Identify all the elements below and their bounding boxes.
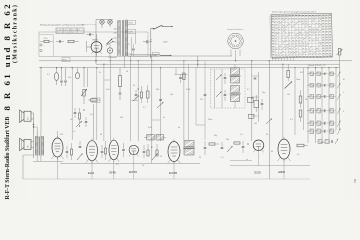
- svg-text:5k: 5k: [266, 134, 268, 136]
- svg-text:L: L: [343, 92, 344, 94]
- label winding 6.3V b: [128, 29, 136, 33]
- fuse Si1: [100, 20, 104, 24]
- svg-text:Si Si Si Si: Si Si Si Si: [57, 32, 75, 34]
- electrolytic can C e1: [54, 73, 58, 81]
- svg-text:2k: 2k: [133, 85, 135, 87]
- IF coil 1b: [231, 77, 240, 83]
- IF can bottom: [184, 141, 194, 147]
- capacitor C c2: [261, 103, 264, 105]
- wire seg y54: [130, 53, 160, 55]
- band filter row 4: [310, 109, 314, 114]
- wire v96b: [96, 68, 98, 140]
- svg-text:8k: 8k: [100, 134, 102, 136]
- tube EL84 (a): [52, 138, 63, 157]
- svg-text:Geänd. 8 R 62 / 1,2: Geänd. 8 R 62 / 1,2: [308, 65, 326, 67]
- electrolytic can C e2: [76, 73, 80, 79]
- capacitor C mains: [89, 33, 91, 36]
- title text maker: [5, 117, 11, 200]
- svg-text:0,02: 0,02: [148, 127, 152, 129]
- label plate number: [354, 178, 357, 183]
- svg-text:0,1: 0,1: [73, 131, 76, 133]
- trimmer arrow r1: [285, 82, 293, 89]
- svg-text:300: 300: [156, 89, 159, 91]
- svg-text:50p: 50p: [262, 92, 265, 94]
- band filter row 6: [310, 129, 314, 134]
- cluster caps mid: [74, 112, 77, 114]
- band filter row 1: [310, 72, 314, 76]
- svg-text:731: 731: [354, 178, 357, 183]
- lamp pilot: [107, 48, 112, 53]
- svg-text:250: 250: [60, 134, 63, 136]
- svg-text:60: 60: [271, 151, 273, 153]
- svg-text:EL84: EL84: [88, 171, 95, 175]
- transistor-like cluster: [135, 94, 138, 96]
- label winding 6.3V a: [128, 20, 136, 24]
- wire v138: [137, 61, 139, 141]
- svg-text:4p: 4p: [178, 127, 180, 129]
- svg-text:ECC85: ECC85: [169, 172, 178, 175]
- label box net: [62, 58, 70, 62]
- svg-text:70: 70: [142, 165, 144, 167]
- wire mains rail: [39, 60, 352, 62]
- wire dashed note lead: [82, 23, 96, 25]
- svg-text:50k: 50k: [226, 139, 229, 141]
- wire v72: [71, 68, 73, 140]
- wire v308: [307, 68, 309, 143]
- svg-text:(Musikschrank): (Musikschrank): [11, 4, 18, 63]
- svg-text:50: 50: [126, 71, 128, 73]
- wire v329: [328, 68, 330, 143]
- svg-text:10k: 10k: [170, 94, 173, 96]
- svg-text:1k: 1k: [99, 72, 101, 74]
- svg-text:25: 25: [160, 156, 162, 158]
- IF caps: [224, 77, 227, 79]
- IF trimmer arrows: [216, 75, 222, 81]
- wire v183: [183, 61, 185, 140]
- svg-text:Netzspannungswähler auf Spannu: Netzspannungswähler auf Spannung einstel…: [40, 23, 86, 26]
- connector socket plug: [228, 33, 244, 49]
- svg-text:5k: 5k: [163, 117, 165, 119]
- electrolytic C50: [143, 41, 146, 43]
- speaker LS2 text: [27, 145, 29, 148]
- svg-text:Netztrafo: Netztrafo: [109, 56, 118, 59]
- svg-text:2k: 2k: [199, 157, 201, 159]
- band row part bottom: [318, 140, 322, 144]
- speaker LS1 text: [27, 117, 29, 120]
- svg-text:220: 220: [114, 33, 117, 35]
- resistor R r2: [299, 96, 302, 103]
- tube EC92 (f): [253, 140, 264, 151]
- svg-text:0,05: 0,05: [93, 100, 97, 102]
- label box lower: [152, 52, 159, 56]
- svg-text:EZ80: EZ80: [93, 39, 99, 41]
- component block above c: [147, 135, 155, 141]
- svg-text:110: 110: [114, 42, 117, 44]
- transformer Tr2 output: [34, 137, 36, 156]
- wire connector leads: [230, 50, 232, 57]
- svg-text:EM84: EM84: [279, 171, 286, 174]
- wire switch drop: [150, 28, 152, 58]
- wire right links: [308, 73, 336, 75]
- speaker LS1: [24, 111, 31, 121]
- wire upper rail: [128, 55, 232, 57]
- svg-text:ECH81: ECH81: [129, 171, 138, 174]
- wire v336: [335, 68, 337, 130]
- resistor R m3: [91, 99, 98, 101]
- power supply enclosure: [39, 32, 148, 57]
- wire v303: [303, 68, 305, 130]
- svg-text:0,1: 0,1: [221, 157, 224, 159]
- wire v197: [197, 56, 199, 68]
- switch S1: [151, 27, 154, 29]
- terminal dots: [40, 44, 42, 46]
- table tube data: [270, 13, 333, 58]
- label box m: [91, 97, 93, 99]
- wire v110: [109, 56, 111, 141]
- svg-text:50µF: 50µF: [163, 42, 169, 44]
- rectifier tube EZ80: [91, 42, 102, 53]
- svg-text:1n: 1n: [246, 159, 248, 161]
- svg-text:6,3V: 6,3V: [129, 31, 134, 33]
- cluster mid-bottom: [204, 147, 207, 149]
- svg-text:110 125 220 240: 110 125 220 240: [57, 29, 80, 31]
- wire fuse top link: [96, 19, 113, 21]
- svg-text:0,01: 0,01: [90, 114, 94, 116]
- IF coil 1a: [231, 68, 240, 75]
- wire lamp leads: [109, 44, 111, 48]
- transformer Tr1 secondary: [124, 20, 126, 56]
- svg-text:0,1: 0,1: [47, 74, 50, 76]
- svg-text:Netz: Netz: [63, 59, 67, 62]
- svg-text:0,1: 0,1: [240, 134, 243, 136]
- wire v130: [130, 56, 132, 141]
- wire v124: [123, 56, 125, 68]
- transformer Tr1 core: [121, 20, 123, 56]
- tube ECC85 (e): [168, 142, 180, 162]
- wire rectifier leads: [96, 34, 98, 42]
- cluster b-c: [122, 149, 125, 151]
- speaker LS2: [24, 140, 31, 150]
- svg-text:KW: KW: [300, 72, 303, 74]
- svg-text:200p: 200p: [208, 119, 212, 121]
- svg-text:~220: ~220: [43, 38, 47, 40]
- transformer Tr1 primary: [117, 21, 119, 57]
- wire line y163: [60, 162, 200, 164]
- cluster a-b: [101, 151, 104, 153]
- svg-text:25k: 25k: [68, 77, 71, 79]
- connector socket pins: [239, 41, 242, 45]
- resistor R t2: [146, 91, 149, 98]
- svg-text:2 Vrms: 2 Vrms: [319, 141, 325, 144]
- wire fuse leads: [101, 24, 103, 28]
- wire v295: [294, 68, 296, 135]
- svg-text:WL: WL: [305, 99, 308, 101]
- title text line 2: [11, 4, 18, 63]
- wire v103: [103, 64, 105, 141]
- wire v87: [87, 68, 89, 87]
- component right of EM84: [297, 144, 304, 147]
- wire v251: [251, 61, 253, 141]
- svg-text:6,3V: 6,3V: [129, 22, 134, 24]
- svg-text:240: 240: [114, 29, 117, 31]
- capacitor C m1: [61, 68, 63, 80]
- wire bottom ground bus: [23, 178, 310, 180]
- IF can dashed box: [211, 69, 246, 108]
- svg-text:0,5: 0,5: [116, 164, 119, 166]
- svg-text:Spannungen gemessen gegen Chas: Spannungen gemessen gegen Chassis bei 22…: [272, 11, 318, 13]
- wire v315: [315, 68, 317, 143]
- svg-text:0,05: 0,05: [106, 89, 110, 91]
- wire v151: [151, 56, 153, 163]
- wire v176 T: [175, 68, 177, 75]
- svg-text:8 R 61 und 8 R 62: 8 R 61 und 8 R 62: [2, 2, 12, 111]
- svg-text:0,05: 0,05: [154, 55, 158, 57]
- label box m2: [92, 98, 100, 103]
- wire lower arrow: [160, 54, 172, 56]
- tube ECH81 (d): [129, 145, 138, 154]
- wire heater rail: [39, 67, 340, 69]
- svg-text:EC92: EC92: [255, 171, 262, 174]
- resistor R t1: [119, 76, 122, 87]
- wire tube G leads: [57, 131, 59, 137]
- wire line y160: [230, 160, 252, 162]
- voltage selector arrow: [107, 39, 113, 45]
- svg-text:EF89: EF89: [110, 171, 117, 175]
- resistor R c1: [183, 73, 185, 80]
- wire v93: [92, 104, 94, 140]
- capacitor C v258: [254, 77, 257, 79]
- svg-text:R-F-T Stern-Radio Staßfurt VEB: R-F-T Stern-Radio Staßfurt VEB: [5, 117, 11, 200]
- resistor R mains: [44, 40, 49, 42]
- wire v41: [40, 68, 42, 110]
- IF coil 2a: [231, 86, 240, 93]
- cluster diag: [266, 119, 272, 125]
- resistor R2 ps: [68, 40, 74, 42]
- wire arrow out1: [163, 26, 173, 28]
- capacitor C sel: [59, 40, 61, 43]
- wire Tr2 leads: [40, 110, 42, 130]
- svg-text:125: 125: [114, 38, 117, 40]
- wire speaker bus: [31, 112, 34, 114]
- tube EF89 (c): [109, 140, 119, 160]
- svg-text:2M: 2M: [287, 94, 290, 96]
- svg-text:20k: 20k: [254, 123, 257, 125]
- cluster c-d: [143, 151, 146, 153]
- wire trafo right drop: [131, 37, 133, 56]
- IF core 2: [230, 92, 241, 94]
- svg-text:30p: 30p: [214, 135, 217, 137]
- svg-text:1M: 1M: [200, 99, 203, 101]
- wire v160: [160, 68, 162, 141]
- resistor R r3: [299, 110, 302, 117]
- IF core 1: [230, 74, 241, 76]
- svg-text:0,5M: 0,5M: [186, 89, 191, 91]
- resistor R r4: [338, 49, 341, 56]
- diode cluster: [254, 101, 259, 108]
- svg-text:0,3: 0,3: [290, 119, 293, 121]
- wire tube drops: [91, 161, 93, 179]
- cluster g-a: [66, 151, 69, 153]
- wire secondary taps: [126, 21, 128, 23]
- svg-text:0,5: 0,5: [297, 154, 300, 156]
- voltage selector table: [56, 28, 84, 34]
- svg-text:Lautsprecherbuchse: Lautsprecherbuchse: [227, 28, 243, 31]
- svg-text:0,1: 0,1: [247, 89, 250, 91]
- pilot arrow: [106, 41, 114, 46]
- wire HT rail: [96, 63, 340, 65]
- wire v269: [268, 61, 270, 179]
- wire v282: [282, 64, 284, 139]
- IF wires: [214, 69, 216, 108]
- svg-text:0,1: 0,1: [143, 107, 146, 109]
- wire v339: [339, 56, 341, 130]
- band filter row 2: [310, 84, 314, 88]
- fuse Si2: [108, 20, 112, 24]
- wire v322: [321, 68, 323, 143]
- svg-text:1M: 1M: [70, 119, 73, 121]
- table pin leads: [272, 58, 274, 61]
- IF coil 2b: [231, 95, 240, 102]
- svg-text:500: 500: [120, 117, 123, 119]
- tube EM84 (g): [278, 139, 290, 159]
- junction dots rails: [95, 60, 96, 61]
- potentiometer P1: [81, 89, 87, 96]
- title text model: [2, 2, 12, 111]
- svg-text:100p: 100p: [296, 79, 300, 81]
- capacitor C m2: [65, 68, 67, 80]
- wire bottom seg left: [33, 160, 63, 162]
- tube EABC80 (b): [87, 141, 98, 161]
- band filter row 3: [310, 95, 314, 99]
- wire v258: [258, 72, 260, 122]
- band filter row 5: [310, 121, 314, 126]
- resistor R r1: [287, 71, 290, 78]
